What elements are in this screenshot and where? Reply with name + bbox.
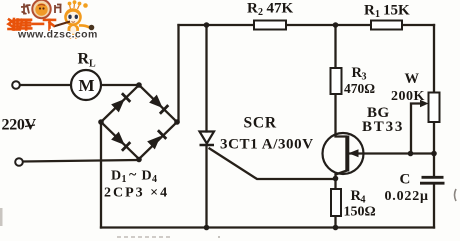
node top rail R3 branch xyxy=(333,22,339,28)
node bridge bottom corner xyxy=(136,157,142,163)
diode D2 top-right xyxy=(149,94,168,113)
resistor R4 xyxy=(331,189,341,216)
wire top AC from terminal to motor xyxy=(20,84,71,86)
node gate/B1/R4 junction xyxy=(333,176,339,182)
watermark char zhao xyxy=(21,4,31,15)
watermark mascot brush xyxy=(54,22,71,27)
watermark mascot right arm xyxy=(79,25,90,27)
node bridge right corner xyxy=(174,119,180,125)
scan mark right edge xyxy=(455,189,457,201)
node R4 at bottom rail xyxy=(333,225,339,231)
terminal input bottom xyxy=(15,158,23,166)
node emitter line to right rail xyxy=(431,151,437,157)
svg-text:W: W xyxy=(405,71,420,87)
wire gate node to R4 xyxy=(334,179,336,189)
svg-text:R: R xyxy=(247,1,258,17)
svg-text:D: D xyxy=(142,169,152,184)
bridge side top-right xyxy=(139,85,177,122)
svg-text:R: R xyxy=(364,3,375,19)
diode D3 bottom-left xyxy=(111,131,130,150)
capacitor C plates xyxy=(422,176,444,179)
wire R3 to UJT base2 xyxy=(336,94,347,137)
svg-text:~: ~ xyxy=(129,168,137,183)
wire top rail right of R1 xyxy=(402,24,434,26)
wire UJT base1 to gate node xyxy=(336,171,348,180)
potentiometer W xyxy=(429,93,440,123)
wire W bottom to emitter node xyxy=(433,122,435,154)
motor RL circle xyxy=(71,70,101,100)
node wiper to emitter line xyxy=(408,151,414,157)
wire SCR gate to UJT B1 node xyxy=(210,149,336,180)
wire R4 to bottom rail xyxy=(334,216,336,228)
wire right rail top to W xyxy=(433,25,435,93)
resistor R2 xyxy=(254,21,286,30)
terminal input top xyxy=(12,81,20,89)
emitter arrow of BT33 xyxy=(349,149,359,157)
wire motor to bridge top corner xyxy=(101,84,139,86)
svg-text:2CP3 ×4: 2CP3 ×4 xyxy=(104,186,169,201)
watermark char pian xyxy=(55,5,62,14)
watermark mascot body xyxy=(68,25,80,36)
svg-text:BT33: BT33 xyxy=(362,119,404,135)
svg-text:150Ω: 150Ω xyxy=(344,205,376,220)
scan smudge left edge xyxy=(0,208,3,226)
wire capacitor to bottom rail xyxy=(433,185,435,228)
wire UJT emitter line xyxy=(349,152,434,154)
wire W wiper xyxy=(411,104,422,154)
node top rail SCR branch xyxy=(204,22,210,28)
svg-text:www.dzsc.com: www.dzsc.com xyxy=(17,29,98,41)
wire SCR anode branch from top rail xyxy=(205,25,207,132)
resistor R1 xyxy=(371,21,402,30)
svg-text:2: 2 xyxy=(258,7,263,18)
svg-text:D: D xyxy=(111,169,121,184)
bridge side bottom-left xyxy=(101,122,139,159)
watermark mascot legs xyxy=(69,35,72,39)
svg-text:L: L xyxy=(89,59,96,70)
svg-text:M: M xyxy=(78,76,94,95)
diode D4 bottom-right xyxy=(147,130,166,149)
watermark badge circle xyxy=(32,0,50,18)
diode D1 top-left xyxy=(111,93,130,112)
wire bottom AC terminal to bridge bottom corner xyxy=(23,160,139,162)
SCR thyristor symbol xyxy=(200,132,215,144)
bridge side top-left xyxy=(101,85,139,122)
wire emitter node down to capacitor xyxy=(433,154,435,177)
wire SCR cathode down to bottom rail xyxy=(205,145,207,228)
node SCR cathode at bottom rail xyxy=(204,225,210,231)
svg-text:470Ω: 470Ω xyxy=(344,81,375,96)
watermark logo dzsc xyxy=(9,0,98,41)
svg-text:47K: 47K xyxy=(267,1,294,17)
svg-text:200K: 200K xyxy=(391,89,425,104)
bridge side bottom-right xyxy=(139,122,177,159)
watermark mascot crown balls xyxy=(70,5,71,10)
svg-text:0.022μ: 0.022μ xyxy=(385,189,429,204)
wire top rail between R2 and R1 xyxy=(286,24,371,26)
node bridge left corner xyxy=(98,119,104,125)
svg-text:3CT1 A/300V: 3CT1 A/300V xyxy=(220,137,314,153)
svg-text:4: 4 xyxy=(152,174,157,185)
node bridge top corner xyxy=(136,82,142,88)
wiper arrow of W xyxy=(420,100,429,107)
wire top rail left segment xyxy=(179,24,255,26)
wire R3 branch from top rail xyxy=(334,25,336,68)
strike on V of 220V xyxy=(25,125,35,127)
wire bottom rail xyxy=(101,226,434,228)
scan dashes bottom xyxy=(117,236,172,238)
svg-text:R: R xyxy=(78,51,90,68)
svg-text:C: C xyxy=(400,172,411,188)
svg-text:1: 1 xyxy=(375,9,380,20)
svg-text:1: 1 xyxy=(122,174,127,185)
watermark mascot head xyxy=(64,8,82,26)
transistor BG BT33 unijunction xyxy=(323,133,364,174)
resistor R3 xyxy=(331,68,342,94)
wire bridge left corner down to bottom rail xyxy=(100,122,102,228)
wire bridge right corner up to top rail xyxy=(177,25,179,122)
svg-text:SCR: SCR xyxy=(244,115,277,132)
watermark text weiku yixia xyxy=(9,19,56,30)
svg-text:15K: 15K xyxy=(383,3,410,19)
